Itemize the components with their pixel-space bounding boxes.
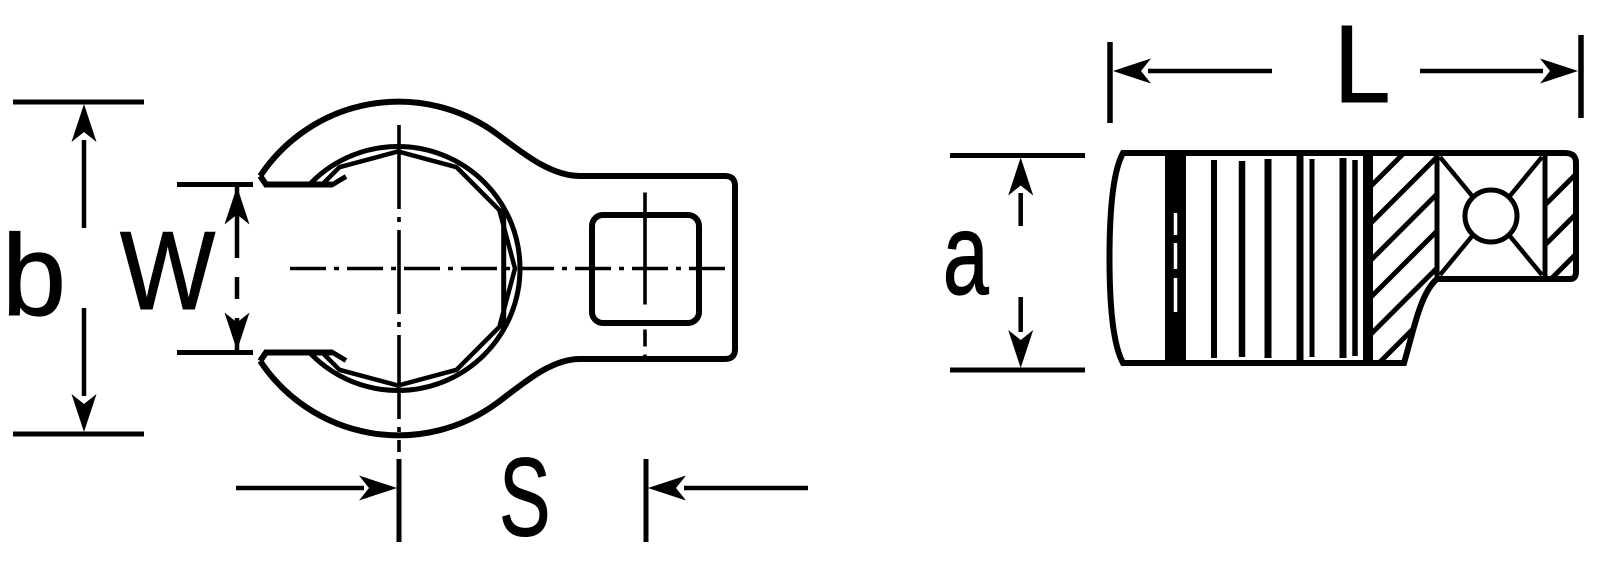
L left arrow (1148, 69, 1272, 74)
square vertical centerline (643, 193, 647, 358)
svg-text:a: a (943, 190, 990, 319)
S right arrow (684, 486, 808, 491)
svg-text:b: b (2, 212, 66, 340)
boss diagonal bottom-right (1509, 235, 1542, 275)
section line (1297, 153, 1304, 363)
jaw groove stub top (331, 177, 346, 186)
ball circle (1465, 190, 1517, 242)
W top tick (177, 182, 253, 187)
S right tick (644, 459, 649, 542)
hatched neck section (1330, 50, 1470, 449)
boss diagonal top-right (1509, 157, 1542, 197)
L right tick (1578, 35, 1584, 118)
section boundary (1363, 153, 1373, 363)
ring vertical centerline (397, 125, 401, 452)
inner 12-point profile : circle (276, 147, 520, 391)
serration line (1211, 160, 1217, 358)
W bottom tick (177, 350, 253, 355)
square boss left edge (1435, 153, 1440, 279)
S left arrow (236, 486, 364, 491)
b arrow down (82, 308, 87, 396)
boss diagonal bottom-left (1440, 235, 1473, 275)
svg-text:S: S (499, 436, 550, 560)
a arrow up (1018, 193, 1023, 226)
inner 12-point profile : dodecagon (281, 152, 515, 386)
W arrow down (235, 318, 240, 351)
ring face band (1165, 154, 1186, 362)
svg-text:L: L (1334, 3, 1391, 125)
b bottom tick (13, 432, 144, 437)
side view outline (1110, 153, 1577, 363)
jaw slot top edge (260, 176, 332, 185)
serration line (1239, 161, 1246, 357)
square boss divider (1543, 153, 1548, 279)
L right arrow (1420, 69, 1543, 74)
serration line (1352, 160, 1358, 356)
jaw groove stub bottom (331, 352, 346, 361)
inner profile right flat (501, 207, 506, 330)
serration line (1340, 158, 1347, 358)
hatched right end (1530, 110, 1600, 340)
outer contour of spanner (260, 102, 735, 436)
b arrow up (82, 140, 87, 228)
boss diagonal top-left (1440, 157, 1473, 197)
W arrow up (235, 186, 240, 258)
W dashed middle (235, 277, 240, 299)
b top tick (13, 100, 144, 105)
S left tick (397, 459, 402, 542)
a top tick (950, 153, 1085, 158)
square drive hole (592, 215, 699, 323)
horizontal centerline (290, 267, 726, 271)
serration line (1310, 159, 1315, 357)
L left tick (1107, 42, 1113, 123)
a arrow down (1018, 297, 1023, 332)
jaw slot bottom edge (260, 353, 332, 362)
serration line (1265, 159, 1272, 358)
a bottom tick (950, 368, 1085, 373)
svg-text:W: W (120, 208, 216, 333)
